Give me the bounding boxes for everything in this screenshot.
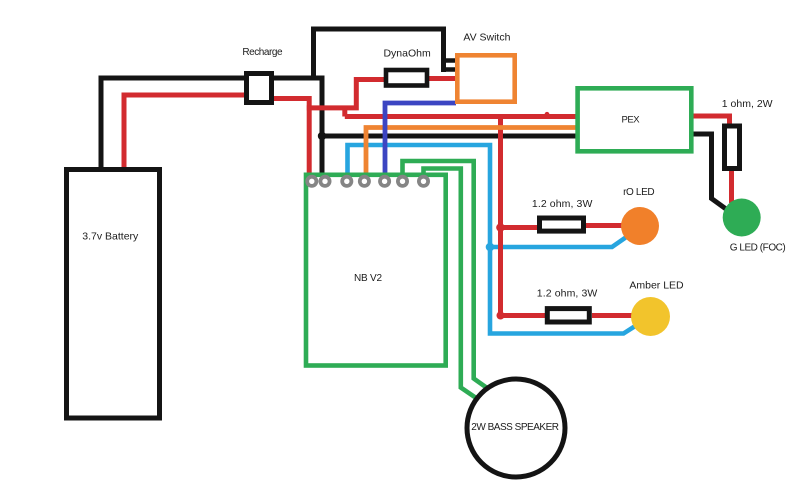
wire: DynaOhm to AV Switch red: [428, 76, 456, 81]
node: red bump: [545, 112, 550, 117]
wire: blue from NB V2 pin 5 to AV Switch: [385, 103, 456, 177]
svg-text:PEX: PEX: [622, 115, 641, 126]
svg-text:1.2 ohm, 3W: 1.2 ohm, 3W: [537, 288, 598, 300]
wire: R3 to Amber LED red: [592, 313, 637, 318]
node: red corner dot: [497, 312, 505, 320]
AV Switch: [457, 55, 514, 101]
wire: R1 bottom red to G LED: [729, 169, 734, 203]
rO LED: [621, 207, 659, 245]
recharge module: [247, 74, 272, 103]
wire: Recharge right red down to NB V2 pin 1: [274, 99, 309, 178]
battery B1: [67, 170, 160, 419]
NB V2 pin 5: [380, 177, 389, 186]
NB V2 pin 6: [398, 177, 407, 186]
svg-text:DynaOhm: DynaOhm: [383, 48, 431, 60]
wire: top black loop to AV Switch: [314, 29, 444, 80]
wire: red bus to PEX: [345, 106, 577, 117]
Amber LED: [631, 297, 670, 336]
node: cyan junction: [486, 243, 495, 252]
wire: battery red lead to Recharge: [124, 95, 244, 168]
wire: green speaker lead B: [424, 169, 483, 403]
svg-text:1 ohm, 2W: 1 ohm, 2W: [722, 98, 773, 110]
wire: cyan from NB V2 pin 3 to LED returns: [348, 145, 638, 334]
NB V2 pin 3: [342, 177, 351, 186]
wire: battery black lead to Recharge: [101, 78, 244, 168]
NB V2 pin 4: [360, 177, 369, 186]
wire: PEX right black to G LED: [692, 134, 730, 212]
resistor R2 1.2 ohm 3W: [540, 218, 584, 231]
svg-text:rO LED: rO LED: [623, 187, 654, 198]
wire: cyan branch to rO LED: [490, 236, 629, 248]
wire: orange from NB V2 pin 4 to PEX: [366, 128, 577, 178]
svg-text:2W BASS SPEAKER: 2W BASS SPEAKER: [471, 422, 559, 433]
DynaOhm regulator: [386, 70, 427, 86]
wire: Recharge right black to junction and down to NB V2 pin 2: [274, 78, 322, 177]
wire: PEX right red to resistor R1: [692, 116, 730, 124]
svg-text:Amber LED: Amber LED: [629, 280, 684, 292]
svg-text:Recharge: Recharge: [242, 47, 283, 58]
G LED: [723, 199, 761, 237]
wire: red branch to DynaOhm: [307, 80, 385, 108]
resistor R3 1.2 ohm 3W: [547, 309, 589, 322]
wire: green speaker lead A: [403, 161, 493, 392]
wire: red drop to LED resistors: [501, 117, 547, 316]
resistor R1 1 ohm 2W: [725, 126, 740, 169]
node: red junction: [496, 223, 505, 232]
svg-text:AV Switch: AV Switch: [463, 32, 510, 44]
wire: AV switch black stub upper: [442, 58, 456, 63]
wire: R2 to rO LED red: [586, 223, 626, 228]
NB V2 pin 7: [419, 177, 428, 186]
wire: red branch to resistor R2: [501, 225, 541, 230]
wire: AV switch black stub lower: [442, 67, 456, 72]
PEX board: [578, 88, 692, 151]
speaker SP1: [467, 379, 565, 477]
NB V2 board: [306, 175, 446, 366]
svg-text:NB V2: NB V2: [354, 273, 383, 284]
svg-text:1.2 ohm, 3W: 1.2 ohm, 3W: [532, 198, 593, 210]
svg-text:3.7v Battery: 3.7v Battery: [82, 231, 139, 243]
wire: black bus to PEX: [322, 134, 578, 139]
node: black junction: [318, 132, 326, 140]
NB V2 pin 1: [307, 177, 316, 186]
svg-text:G LED (FOC): G LED (FOC): [730, 243, 786, 254]
NB V2 pin 2: [320, 177, 329, 186]
